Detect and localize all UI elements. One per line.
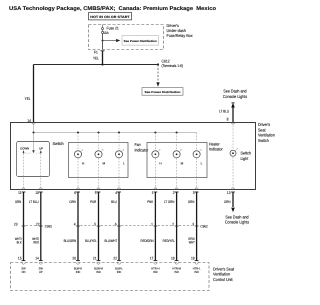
svg-text:M: M [103, 161, 106, 165]
driver's seat ventilation control unit box [11, 263, 210, 291]
svg-text:1: 1 [152, 191, 154, 195]
svg-text:RED/YEL: RED/YEL [163, 239, 175, 243]
heater indicator lamp M [173, 133, 184, 190]
node HTR-H IND [151, 266, 159, 274]
node See Dash and Console Lights (top) [223, 89, 247, 99]
wire BLU/WHT [104, 239, 117, 243]
fan indicator lamp L [115, 133, 125, 190]
connector C961 line [26, 224, 192, 226]
svg-text:3: 3 [192, 222, 194, 226]
control unit pin 18 [171, 257, 178, 265]
wire LT BLU to dash/console lights [219, 103, 235, 123]
svg-text:IND: IND [194, 270, 199, 274]
pin 6 [74, 188, 80, 195]
connector pin 6 [115, 222, 121, 226]
wire BLU/GRN [64, 239, 77, 243]
svg-text:17: 17 [150, 257, 154, 261]
junction bus [77, 131, 79, 133]
svg-text:LT BLU: LT BLU [29, 200, 39, 204]
wire WHT/RED [32, 237, 39, 244]
svg-text:6: 6 [115, 222, 117, 226]
wire YEL from F1 to node [93, 51, 103, 65]
svg-text:8: 8 [227, 116, 229, 121]
svg-text:UP: UP [39, 270, 43, 274]
switch DOWN contact [20, 147, 29, 154]
heater indicator lamp H [152, 133, 163, 190]
label Switch Light [241, 151, 252, 161]
svg-text:5: 5 [95, 191, 97, 195]
wire PNK [147, 192, 155, 261]
svg-text:GRN: GRN [15, 200, 22, 204]
svg-text:Fuse 21: Fuse 21 [107, 25, 120, 30]
control unit pin 22 [113, 257, 120, 265]
svg-text:F1: F1 [94, 50, 98, 54]
wire switch DOWN to pin 11 [23, 154, 25, 190]
wire RED/GRN [141, 239, 154, 243]
svg-text:BLU/WHT: BLU/WHT [104, 239, 117, 243]
svg-text:4: 4 [115, 191, 117, 195]
node BLW-M IND [94, 266, 103, 274]
svg-text:IND: IND [174, 270, 179, 274]
svg-text:IND: IND [153, 270, 158, 274]
svg-text:PUR: PUR [90, 200, 96, 204]
svg-text:See Power Distribution: See Power Distribution [124, 39, 157, 43]
pin 1 [152, 188, 158, 195]
wire GRN [69, 192, 78, 261]
node BLW-L IND [115, 266, 123, 274]
wire arrow to See Power Distribution [103, 39, 121, 42]
svg-text:HOT IN ON OR START: HOT IN ON OR START [90, 15, 130, 19]
switch light lamp [230, 123, 238, 190]
svg-text:LT BLU: LT BLU [219, 109, 229, 113]
connector pin 2 [172, 222, 178, 226]
wire GRN [188, 192, 197, 261]
svg-text:RED/GRN: RED/GRN [141, 239, 154, 243]
wire RED/WHT [188, 237, 194, 244]
wire LT GRN [164, 192, 177, 261]
svg-text:YEL: YEL [25, 97, 31, 101]
junction on fuse output [102, 40, 104, 42]
connector pin 5 [94, 222, 100, 226]
svg-text:11: 11 [18, 191, 21, 195]
wire WHT/BLK [15, 237, 22, 244]
svg-text:4: 4 [74, 222, 76, 226]
node HTR-L IND [193, 266, 201, 274]
wire main YEL bus [34, 64, 159, 66]
wire switch UP to pin 10 [40, 154, 42, 190]
wire GRN [15, 192, 24, 261]
svg-text:L: L [201, 161, 203, 165]
pin 3 [193, 188, 199, 195]
junction bus [118, 131, 120, 133]
svg-text:18: 18 [171, 257, 175, 261]
svg-text:IND: IND [117, 270, 122, 274]
label Driver's Under-dash Fuse/Relay Box [167, 23, 194, 38]
svg-text:20: 20 [72, 257, 76, 261]
node SW DN [21, 266, 25, 274]
svg-text:GRN: GRN [188, 200, 195, 204]
svg-text:2: 2 [173, 191, 175, 195]
svg-text:23: 23 [14, 222, 18, 226]
pin 14 [27, 118, 35, 124]
svg-text:M: M [181, 161, 184, 165]
pin 5 [95, 188, 101, 195]
switch common blade [25, 133, 40, 154]
node SW UP [39, 266, 43, 274]
connector pin 3 [192, 222, 198, 226]
wire PUR [90, 192, 98, 261]
svg-text:6: 6 [74, 191, 76, 195]
svg-text:(Terminals 1-6): (Terminals 1-6) [162, 64, 184, 68]
control unit pin 17 [150, 257, 157, 265]
svg-text:BLK: BLK [17, 241, 23, 245]
junction bus [97, 131, 99, 133]
pin 2 [173, 188, 179, 195]
connector pin 1 [151, 222, 157, 226]
driver's under-dash fuse/relay box outline [89, 25, 164, 50]
svg-text:IND: IND [76, 270, 81, 274]
wire RED/YEL [163, 239, 175, 243]
junction bus [32, 131, 34, 133]
svg-text:C962: C962 [200, 224, 207, 228]
wire dashed to see power distribution [156, 65, 159, 87]
control unit pin 14 [35, 257, 42, 265]
connector pin 4 [74, 222, 80, 226]
value label Fuse 21 10A [103, 25, 119, 35]
fan indicator lamp M [95, 133, 106, 190]
label Fan Indicator [135, 142, 149, 152]
svg-text:1: 1 [151, 222, 153, 226]
control unit pin 15 [18, 257, 25, 265]
svg-text:BLU/GRN: BLU/GRN [64, 239, 77, 243]
see power distribution box (top) [122, 36, 159, 45]
fuse 21 (10A) [101, 25, 103, 50]
pin 13 [227, 188, 235, 195]
svg-text:RED: RED [33, 241, 39, 245]
svg-text:Light: Light [241, 156, 249, 161]
junction fuse/bus [101, 63, 103, 65]
svg-text:PNK: PNK [147, 200, 153, 204]
svg-text:YEL: YEL [93, 56, 99, 60]
node See Dash and Console Lights (bottom) [225, 214, 249, 224]
svg-text:IND: IND [96, 270, 101, 274]
junction bus [176, 131, 178, 133]
fan indicator lamp H [74, 133, 85, 190]
svg-text:Fuse/Relay Box: Fuse/Relay Box [167, 33, 194, 38]
svg-text:UP: UP [39, 147, 43, 151]
pin 8 [227, 116, 235, 124]
svg-text:BLU: BLU [111, 200, 117, 204]
svg-text:ORN: ORN [224, 200, 231, 204]
node BLW-H IND [74, 266, 82, 274]
control unit pin 21 [93, 257, 100, 265]
svg-text:10A: 10A [103, 31, 109, 35]
control unit pin 19 [191, 257, 198, 265]
svg-text:LT GRN: LT GRN [164, 200, 175, 204]
switch UP contact [39, 147, 43, 154]
pin F1 [94, 50, 105, 54]
svg-text:Switch: Switch [258, 138, 269, 143]
svg-text:USA Technology Package, CMBS/P: USA Technology Package, CMBS/PAX; Canada… [9, 6, 217, 12]
svg-text:C961: C961 [45, 224, 52, 228]
label Heater Indicator [209, 141, 223, 151]
svg-text:See Dash and: See Dash and [223, 89, 247, 94]
svg-text:Switch: Switch [53, 141, 65, 146]
connector C961 label [45, 224, 52, 228]
svg-text:10: 10 [35, 191, 39, 195]
svg-text:21: 21 [93, 257, 97, 261]
svg-text:BLU/YEL: BLU/YEL [85, 239, 97, 243]
wire YEL to pin 14 [25, 65, 34, 123]
heater indicator box [147, 143, 207, 178]
connector pin 22 [36, 222, 43, 226]
svg-text:5: 5 [94, 222, 96, 226]
svg-text:L: L [123, 161, 125, 165]
switch UP/DOWN box [17, 142, 50, 177]
svg-text:Control Unit: Control Unit [213, 277, 233, 282]
pin 10 [35, 188, 42, 195]
svg-text:DOWN: DOWN [20, 147, 29, 151]
svg-text:3: 3 [193, 191, 195, 195]
svg-text:Indicator: Indicator [135, 147, 149, 152]
svg-text:22: 22 [113, 257, 117, 261]
svg-text:DN: DN [22, 270, 26, 274]
svg-text:2: 2 [172, 222, 174, 226]
svg-text:Console Lights: Console Lights [223, 94, 247, 99]
svg-text:19: 19 [191, 257, 195, 261]
node C612 [157, 59, 184, 69]
wire BLU [111, 192, 119, 261]
label Driver's Seat Ventilation Switch [258, 122, 275, 143]
label Driver's Seat Ventilation Control Unit [213, 266, 235, 281]
wire ORN to dash/console lights [224, 192, 235, 212]
driver's seat ventilation switch box [11, 123, 256, 190]
power label HOT IN ON OR START [89, 13, 132, 20]
connector C962 label [200, 224, 207, 228]
junction bus [154, 131, 156, 133]
svg-text:Indicator: Indicator [209, 147, 223, 152]
wire internal lamp bus [34, 123, 197, 133]
connector pin 23 [14, 222, 25, 226]
pin 4 [115, 188, 121, 195]
svg-text:See Power Distribution: See Power Distribution [145, 90, 181, 94]
svg-text:Console Lights: Console Lights [225, 220, 249, 225]
pin 11 [18, 188, 25, 195]
control unit pin 20 [72, 257, 79, 265]
title [9, 6, 217, 12]
svg-text:GRN: GRN [69, 200, 76, 204]
svg-text:14: 14 [35, 257, 39, 261]
node HTR-M IND [172, 266, 181, 274]
see power distribution box (middle) [142, 88, 183, 96]
svg-text:C612: C612 [162, 59, 171, 64]
fan indicator box [69, 143, 129, 178]
svg-text:15: 15 [18, 257, 22, 261]
heater indicator lamp L [193, 133, 203, 190]
wire LT BLU [29, 192, 41, 261]
svg-text:WHT: WHT [189, 241, 195, 245]
wire BLU/YEL [85, 239, 97, 243]
svg-text:13: 13 [227, 191, 231, 195]
label Switch [53, 141, 65, 146]
